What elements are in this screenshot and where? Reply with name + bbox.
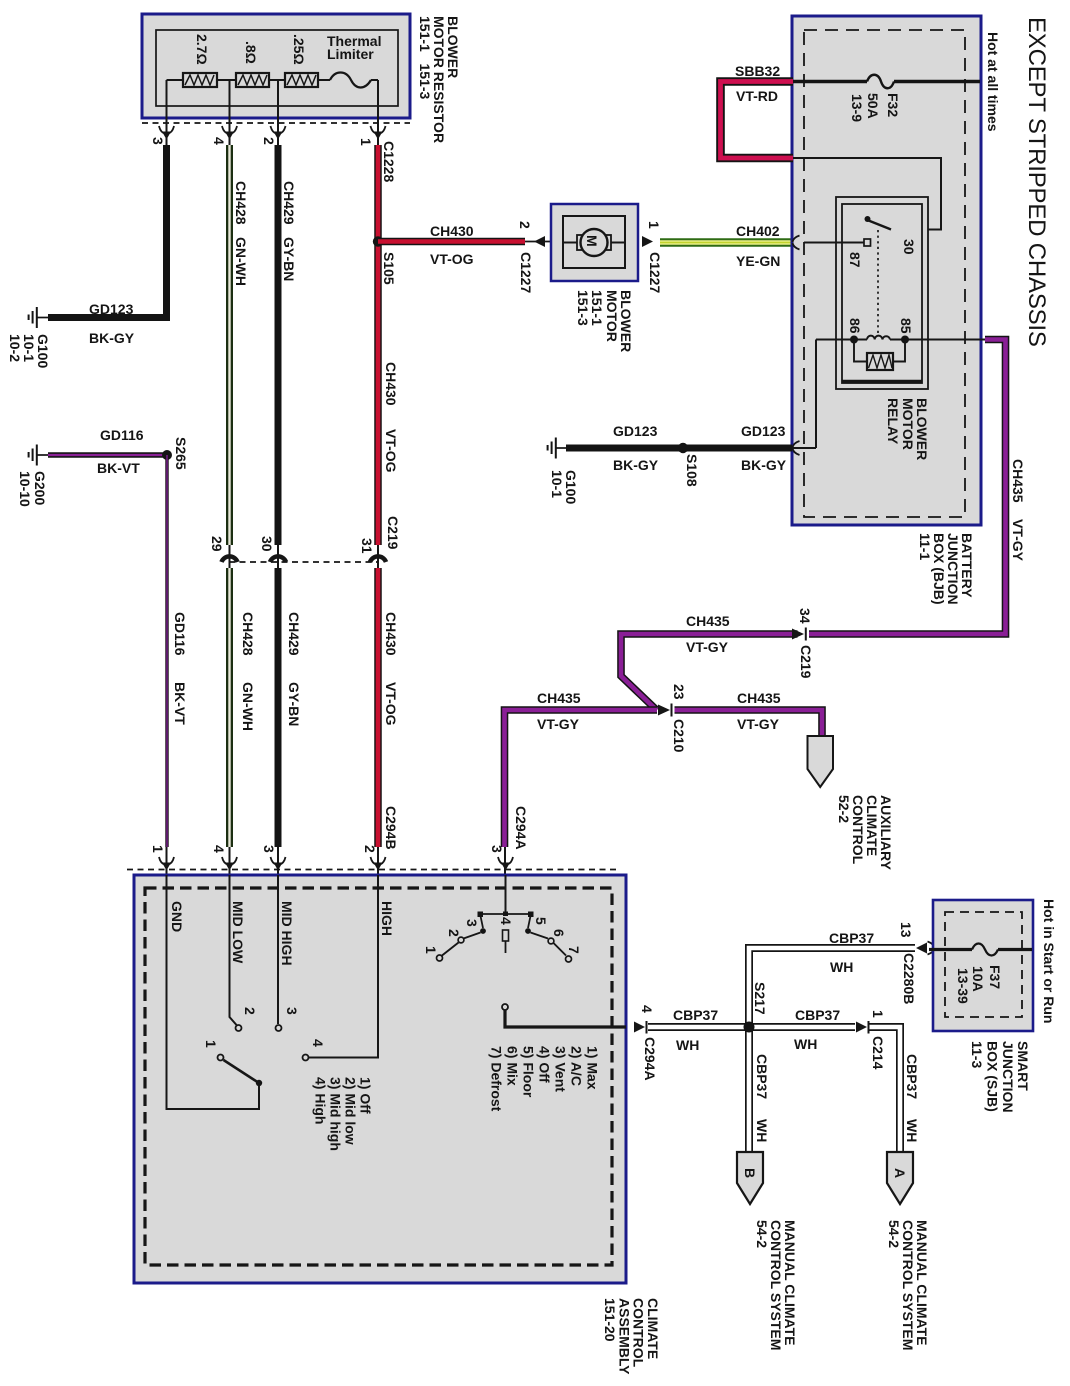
BJB inner dashed box xyxy=(804,30,965,517)
C219 pin 29 cup xyxy=(222,556,238,562)
svg-text:CBP37: CBP37 xyxy=(754,1054,770,1099)
svg-text:52-2: 52-2 xyxy=(836,795,852,823)
svg-text:29: 29 xyxy=(209,536,225,552)
connector A xyxy=(887,1152,913,1204)
svg-text:3: 3 xyxy=(464,919,480,927)
coil shunt resistor xyxy=(854,340,905,362)
svg-text:JUNCTION: JUNCTION xyxy=(1000,1041,1016,1113)
svg-text:GD116: GD116 xyxy=(172,612,188,656)
wire MID HIGH inside xyxy=(277,875,279,1024)
svg-text:GD116: GD116 xyxy=(100,427,144,443)
fuse F32 element xyxy=(867,75,894,89)
svg-text:MOTOR: MOTOR xyxy=(604,290,620,342)
splice S217 xyxy=(744,1022,755,1033)
svg-text:2: 2 xyxy=(362,845,378,853)
motor circle M xyxy=(581,229,608,256)
svg-text:VT-OG: VT-OG xyxy=(383,429,399,473)
svg-text:85: 85 xyxy=(898,318,914,334)
wire stub to motor pin 2 xyxy=(525,241,551,243)
blower motor box xyxy=(551,204,638,281)
svg-text:VT-RD: VT-RD xyxy=(736,88,778,104)
mode switch bar xyxy=(480,913,531,915)
splice S108 xyxy=(678,443,688,453)
svg-text:WH: WH xyxy=(794,1036,817,1052)
fan switch contact 4 xyxy=(303,1055,309,1061)
climate pin 1 symbol xyxy=(159,857,174,871)
svg-text:5) Floor: 5) Floor xyxy=(521,1046,537,1098)
svg-text:2: 2 xyxy=(446,929,462,937)
svg-text:10-1: 10-1 xyxy=(549,470,565,498)
svg-text:CH430: CH430 xyxy=(430,223,474,239)
wire CBP37 climate to S217 xyxy=(648,1023,746,1031)
coil terminal dot 86 xyxy=(850,336,858,344)
splice S105 xyxy=(373,236,383,246)
svg-text:CH429: CH429 xyxy=(286,612,302,656)
C2280B cup xyxy=(928,942,935,955)
mode left arc xyxy=(481,916,484,928)
svg-text:VT-OG: VT-OG xyxy=(383,682,399,726)
svg-text:1: 1 xyxy=(203,1040,219,1048)
svg-text:1: 1 xyxy=(423,946,439,954)
motor brush left xyxy=(577,235,584,250)
svg-text:54-2: 54-2 xyxy=(886,1220,902,1248)
connector C219 dashed line xyxy=(229,561,379,563)
pin 3 symbol xyxy=(159,126,174,140)
svg-text:4: 4 xyxy=(211,845,227,853)
CH402 cup at BJB edge xyxy=(793,236,800,250)
wire GD116 vertical xyxy=(165,455,168,847)
svg-text:2: 2 xyxy=(517,221,533,229)
resistor R .25ohm xyxy=(285,73,318,87)
svg-text:CH402: CH402 xyxy=(736,223,780,239)
svg-text:4) Off: 4) Off xyxy=(537,1046,553,1083)
svg-text:3: 3 xyxy=(284,1007,300,1015)
fan switch contact 2 xyxy=(236,1025,242,1031)
svg-text:GND: GND xyxy=(169,901,185,932)
wire CBP37 S217 right to C214 xyxy=(749,1023,855,1031)
motor brush right xyxy=(604,235,611,250)
svg-text:F37: F37 xyxy=(987,965,1003,989)
GD123 cup at BJB edge xyxy=(793,441,800,455)
wire CH435 C210 to aux connector xyxy=(675,710,823,737)
svg-text:2: 2 xyxy=(242,1007,258,1015)
svg-text:SBB32: SBB32 xyxy=(735,63,780,79)
ground G200 xyxy=(29,445,48,466)
svg-text:CBP37: CBP37 xyxy=(673,1007,718,1023)
svg-text:MID LOW: MID LOW xyxy=(230,901,246,964)
svg-text:C294A: C294A xyxy=(513,806,529,850)
fuse F32 line xyxy=(793,80,980,83)
svg-text:4: 4 xyxy=(211,137,227,145)
fan switch contact 1 xyxy=(218,1055,224,1061)
wire CH435 from climate to C210 xyxy=(505,710,658,847)
climate pin 3 symbol xyxy=(271,857,286,871)
svg-text:CBP37: CBP37 xyxy=(795,1007,840,1023)
svg-text:C219: C219 xyxy=(798,645,814,679)
mode output circle xyxy=(502,1004,508,1010)
climate pin 2 symbol xyxy=(371,857,386,871)
svg-text:G200: G200 xyxy=(32,471,48,505)
svg-text:3: 3 xyxy=(489,845,505,853)
svg-text:23: 23 xyxy=(671,684,687,700)
C2280B pin 13 arrow xyxy=(916,943,927,954)
svg-text:MOTOR: MOTOR xyxy=(900,398,916,450)
svg-text:1: 1 xyxy=(150,845,166,853)
svg-text:BOX (SJB): BOX (SJB) xyxy=(985,1041,1001,1112)
svg-text:C219: C219 xyxy=(385,516,401,550)
svg-text:C294B: C294B xyxy=(383,806,399,850)
wire CH402 YE-GN xyxy=(660,238,792,247)
svg-text:2.7Ω: 2.7Ω xyxy=(194,34,210,65)
svg-text:A: A xyxy=(892,1168,908,1178)
svg-text:6: 6 xyxy=(551,929,567,937)
C214 pin 1 arrow xyxy=(856,1022,867,1033)
svg-text:CH435: CH435 xyxy=(737,690,781,706)
mode output wire xyxy=(505,1010,626,1027)
fan switch arm dot xyxy=(256,1080,262,1086)
relay switch pivot xyxy=(865,216,871,222)
svg-text:S265: S265 xyxy=(173,437,189,470)
SJB inner dashed box xyxy=(945,912,1022,1017)
svg-text:87: 87 xyxy=(847,252,863,268)
wire HIGH inside xyxy=(309,875,378,1058)
svg-text:GY-BN: GY-BN xyxy=(281,237,297,281)
svg-text:GY-BN: GY-BN xyxy=(286,682,302,726)
svg-text:31: 31 xyxy=(359,538,375,554)
climate pin 4 symbol xyxy=(222,857,237,871)
fan switch contact 3 xyxy=(276,1025,282,1031)
svg-text:CBP37: CBP37 xyxy=(904,1054,920,1099)
wire resistor chain xyxy=(167,79,379,81)
svg-text:Hot at all times: Hot at all times xyxy=(985,32,1001,132)
relay inner box thick bottom xyxy=(842,380,922,383)
svg-text:4: 4 xyxy=(639,1005,655,1013)
svg-text:VT-OG: VT-OG xyxy=(430,251,474,267)
svg-text:4) High: 4) High xyxy=(313,1077,329,1124)
svg-text:CH428: CH428 xyxy=(240,612,256,656)
svg-text:4: 4 xyxy=(498,917,514,925)
wire GD116 horizontal xyxy=(48,452,167,458)
svg-text:2: 2 xyxy=(261,137,277,145)
relay 87 terminal square xyxy=(864,239,871,246)
svg-text:13-39: 13-39 xyxy=(955,968,971,1004)
mode wiper 4 knockout xyxy=(498,916,514,929)
splice S265 xyxy=(162,450,172,460)
connector dashed line C1228 xyxy=(142,122,410,124)
wire CBP37 C214 to A xyxy=(869,1027,900,1151)
svg-text:VT-GY: VT-GY xyxy=(686,639,729,655)
wire 86 to GD123 xyxy=(815,340,817,449)
svg-text:WH: WH xyxy=(754,1119,770,1142)
svg-text:BK-VT: BK-VT xyxy=(97,460,140,476)
C219 pin 30 cup xyxy=(270,556,286,562)
C219 pin 31 cup xyxy=(370,556,386,562)
resistor R .8ohm xyxy=(236,73,269,87)
pin 2 arrow C1227 xyxy=(534,236,545,247)
svg-text:C1228: C1228 xyxy=(381,141,397,182)
svg-text:SMART: SMART xyxy=(1015,1041,1031,1091)
svg-text:3: 3 xyxy=(261,845,277,853)
svg-text:13: 13 xyxy=(898,922,914,938)
wire CBP37 S217 down to B xyxy=(745,1027,753,1151)
wire CH435 from relay 85 around BJB xyxy=(809,340,1006,635)
C210 pin 23 arrow xyxy=(658,705,670,716)
relay actuator dotted line xyxy=(877,230,879,333)
svg-text:GN-WH: GN-WH xyxy=(233,237,249,286)
svg-text:CH429: CH429 xyxy=(281,181,297,225)
blower motor resistor box xyxy=(142,14,410,118)
svg-text:3: 3 xyxy=(150,137,166,145)
svg-text:CBP37: CBP37 xyxy=(829,930,874,946)
svg-text:WH: WH xyxy=(676,1037,699,1053)
mode switch feed xyxy=(505,875,507,916)
climate pin 3b symbol xyxy=(498,857,513,871)
wire relay 87 xyxy=(804,242,864,244)
wire SBB32 VT-RD xyxy=(721,82,794,159)
wire MID LOW inside xyxy=(230,875,237,1025)
svg-text:2) Mid low: 2) Mid low xyxy=(343,1077,359,1145)
svg-text:30: 30 xyxy=(901,239,917,255)
battery junction box xyxy=(792,16,981,525)
svg-text:7) Defrost: 7) Defrost xyxy=(489,1046,505,1112)
svg-text:CH430: CH430 xyxy=(383,612,399,656)
svg-text:S217: S217 xyxy=(752,982,768,1015)
svg-text:C2280B: C2280B xyxy=(901,953,917,1004)
svg-text:Limiter: Limiter xyxy=(327,46,374,62)
wire CH430 vertical xyxy=(374,145,382,545)
pin 1 symbol xyxy=(371,126,386,140)
C294A pin 4 arrow xyxy=(634,1022,645,1033)
svg-text:B: B xyxy=(742,1168,758,1178)
svg-text:C214: C214 xyxy=(870,1036,886,1070)
svg-text:EXCEPT STRIPPED CHASSIS: EXCEPT STRIPPED CHASSIS xyxy=(1023,17,1050,347)
wire CBP37 S217 up to SJB xyxy=(749,948,915,1030)
svg-text:CH435: CH435 xyxy=(1010,459,1026,503)
svg-text:11-1: 11-1 xyxy=(917,533,933,560)
svg-text:Hot in Start or Run: Hot in Start or Run xyxy=(1041,899,1057,1023)
fan switch arm xyxy=(224,1060,260,1083)
svg-text:GN-WH: GN-WH xyxy=(240,682,256,731)
fuse F37 element xyxy=(972,944,998,956)
svg-text:4: 4 xyxy=(310,1039,326,1047)
blower motor relay box xyxy=(836,197,928,389)
svg-text:VT-GY: VT-GY xyxy=(537,716,580,732)
svg-text:M: M xyxy=(584,235,600,247)
aux climate control connector xyxy=(808,736,834,787)
svg-text:151-20: 151-20 xyxy=(602,1298,618,1342)
climate control assembly box xyxy=(134,875,626,1283)
svg-text:F32: F32 xyxy=(885,93,901,117)
svg-text:3) Mid high: 3) Mid high xyxy=(328,1077,344,1151)
svg-text:BK-GY: BK-GY xyxy=(741,457,787,473)
mode right arc xyxy=(528,916,531,928)
svg-text:.25Ω: .25Ω xyxy=(291,34,307,65)
wire CH435 C219 to C210 xyxy=(621,634,798,710)
svg-text:GD123: GD123 xyxy=(89,301,134,317)
svg-text:BK-GY: BK-GY xyxy=(613,457,659,473)
relay coil line xyxy=(816,339,985,341)
relay coil bumps xyxy=(867,336,890,340)
pin 1 arrow C1227 xyxy=(642,236,653,247)
svg-text:CH435: CH435 xyxy=(537,690,581,706)
svg-text:3) Vent: 3) Vent xyxy=(553,1046,569,1092)
pin 2 symbol xyxy=(271,126,286,140)
svg-text:54-2: 54-2 xyxy=(754,1220,770,1248)
smart junction box xyxy=(933,900,1033,1031)
svg-text:WH: WH xyxy=(830,959,853,975)
svg-text:34: 34 xyxy=(797,608,813,624)
svg-text:RELAY: RELAY xyxy=(885,398,901,445)
wire GND inside xyxy=(167,875,260,1109)
wire resistor drops xyxy=(167,80,379,145)
svg-text:6) Mix: 6) Mix xyxy=(505,1046,521,1086)
wire GD123 to S108 xyxy=(566,445,792,452)
svg-text:BK-VT: BK-VT xyxy=(172,682,188,725)
resistor inner box xyxy=(156,30,398,106)
svg-text:11-3: 11-3 xyxy=(969,1041,985,1068)
relay 30 terminal dot xyxy=(888,227,894,233)
svg-text:S108: S108 xyxy=(684,454,700,487)
svg-text:30: 30 xyxy=(259,536,275,552)
svg-text:2) A/C: 2) A/C xyxy=(569,1046,585,1086)
svg-text:5: 5 xyxy=(533,917,549,925)
svg-text:GD123: GD123 xyxy=(741,423,786,439)
svg-text:WH: WH xyxy=(904,1119,920,1142)
svg-text:1: 1 xyxy=(646,221,662,229)
relay switch arm xyxy=(869,221,892,230)
svg-text:1: 1 xyxy=(870,1010,886,1018)
wire GD123 pin3 to ground G100 xyxy=(48,145,167,318)
svg-text:151-3: 151-3 xyxy=(575,290,591,326)
ground G100 right xyxy=(548,438,566,459)
svg-text:10-2: 10-2 xyxy=(7,334,23,362)
svg-text:86: 86 xyxy=(847,318,863,334)
svg-text:YE-GN: YE-GN xyxy=(736,253,780,269)
fuse F37 line xyxy=(929,948,1032,951)
svg-text:GD123: GD123 xyxy=(613,423,658,439)
svg-text:VT-GY: VT-GY xyxy=(737,716,780,732)
resistor R 2.7ohm xyxy=(183,73,217,87)
svg-text:C1227: C1227 xyxy=(518,252,534,293)
wire inside BJB to relay 30 xyxy=(793,158,941,230)
coil terminal dot 85 xyxy=(901,336,909,344)
motor feed line xyxy=(563,242,625,244)
wire CH429 xyxy=(275,145,282,545)
svg-text:10A: 10A xyxy=(970,966,986,992)
svg-text:C1227: C1227 xyxy=(647,252,663,293)
svg-text:50A: 50A xyxy=(865,93,881,119)
svg-text:151-1 151-3: 151-1 151-3 xyxy=(417,16,433,99)
ground G100 xyxy=(29,307,48,328)
svg-text:CH428: CH428 xyxy=(233,181,249,225)
svg-text:13-9: 13-9 xyxy=(849,94,865,122)
wire CH428 xyxy=(226,145,233,545)
relay inner box xyxy=(842,204,922,383)
connector dashed line above climate box xyxy=(127,869,618,871)
connector B xyxy=(737,1152,763,1204)
svg-text:7: 7 xyxy=(566,946,582,954)
C219 pin 34 arrow xyxy=(792,629,804,640)
svg-text:CH430: CH430 xyxy=(383,362,399,406)
thermal limiter element xyxy=(330,73,371,88)
svg-text:C294A: C294A xyxy=(642,1037,658,1081)
svg-text:BK-GY: BK-GY xyxy=(89,330,135,346)
svg-text:CH435: CH435 xyxy=(686,613,730,629)
svg-text:VT-GY: VT-GY xyxy=(1010,519,1026,562)
svg-text:10-10: 10-10 xyxy=(17,471,33,507)
blower motor inner box xyxy=(563,216,625,268)
svg-text:.8Ω: .8Ω xyxy=(243,41,259,64)
mode wiper contact xyxy=(503,930,509,941)
wire GD123 inside BJB xyxy=(792,447,816,449)
svg-text:1: 1 xyxy=(358,138,374,146)
svg-text:MID HIGH: MID HIGH xyxy=(279,901,295,966)
pin 4 symbol xyxy=(222,126,237,140)
svg-text:C210: C210 xyxy=(671,719,687,753)
climate inner dashed box xyxy=(145,888,612,1265)
svg-text:S105: S105 xyxy=(381,252,397,285)
svg-text:HIGH: HIGH xyxy=(379,901,395,936)
svg-text:1) Max: 1) Max xyxy=(585,1046,601,1090)
wire CH430 horizontal to blower motor xyxy=(378,238,525,246)
svg-text:1) Off: 1) Off xyxy=(358,1077,374,1114)
